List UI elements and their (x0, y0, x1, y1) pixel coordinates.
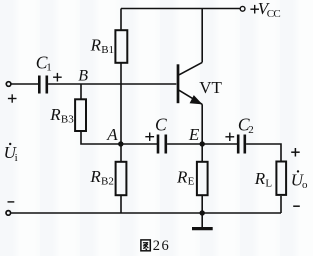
wire bottom rail (11, 212, 281, 214)
svg-text:R: R (49, 105, 61, 124)
label +Vcc (250, 5, 259, 14)
wire RB1 top (120, 9, 122, 31)
svg-text:R: R (90, 36, 102, 55)
resistor RE (197, 162, 208, 195)
label plus output top (291, 148, 300, 157)
wire RE bottom (201, 196, 203, 213)
node ground junction dot (200, 210, 205, 215)
label plus after C1 (53, 73, 62, 82)
node E junction dot (200, 141, 205, 146)
label plus before C2 (225, 133, 234, 141)
svg-text:R: R (254, 169, 266, 188)
label minus above bottom-left terminal (8, 201, 15, 203)
transistor VT (178, 9, 203, 145)
capacitor C2 (238, 135, 245, 154)
svg-text:A: A (106, 125, 118, 144)
wire node A to C (121, 143, 157, 145)
svg-text:26: 26 (153, 238, 171, 254)
wire B to RB3 (80, 84, 82, 99)
node bottom-left terminal (6, 211, 11, 216)
svg-text:L: L (265, 177, 272, 189)
svg-text:E: E (188, 125, 200, 144)
svg-text:i: i (15, 152, 18, 164)
svg-text:E: E (188, 176, 195, 188)
label minus output bottom (293, 205, 300, 207)
resistor RB1 (115, 30, 127, 63)
svg-text:1: 1 (46, 61, 52, 73)
node A junction dot (118, 141, 123, 146)
label plus before C (145, 133, 154, 141)
svg-text:R: R (89, 167, 101, 186)
svg-text:o: o (302, 179, 308, 191)
svg-text:B1: B1 (101, 44, 114, 56)
capacitor C (158, 135, 166, 154)
svg-text:R: R (176, 167, 188, 186)
wire C2 to RL (246, 144, 281, 161)
wire RB1 bottom to node A (120, 63, 122, 161)
wire E node to RE (201, 144, 203, 161)
node input terminal (6, 82, 11, 87)
transistor VT emitter arrow (190, 95, 203, 104)
svg-text:B2: B2 (101, 175, 114, 187)
wire input to C1 (11, 83, 38, 85)
svg-text:B3: B3 (61, 114, 74, 126)
wire C to E to C2 (167, 143, 237, 145)
label plus below input (8, 94, 17, 102)
wire ground stub (201, 213, 203, 228)
resistor RB2 (116, 162, 127, 195)
svg-text:VT: VT (199, 78, 222, 97)
wire base line B (48, 83, 176, 85)
ground bar (192, 227, 213, 230)
node +Vcc terminal (240, 6, 245, 11)
wire emitter to node E (201, 104, 203, 144)
caption figure 26 (141, 240, 150, 251)
wire emitter diagonal (179, 90, 202, 104)
svg-text:C: C (155, 114, 167, 134)
transistor VT base bar (177, 64, 180, 103)
svg-text:2: 2 (248, 124, 254, 136)
wire collector to top rail (201, 9, 203, 63)
capacitor C1 (39, 76, 47, 94)
svg-text:CC: CC (267, 8, 281, 20)
wire collector diagonal (179, 62, 202, 75)
resistor RB3 (75, 99, 86, 131)
wire RL bottom (280, 196, 282, 213)
svg-text:B: B (78, 68, 88, 85)
ground (192, 213, 213, 229)
resistor RL (276, 162, 286, 195)
wire RB2 bottom (120, 196, 122, 213)
wire RB3 bottom to node A (81, 132, 121, 145)
wire top rail (121, 8, 240, 10)
